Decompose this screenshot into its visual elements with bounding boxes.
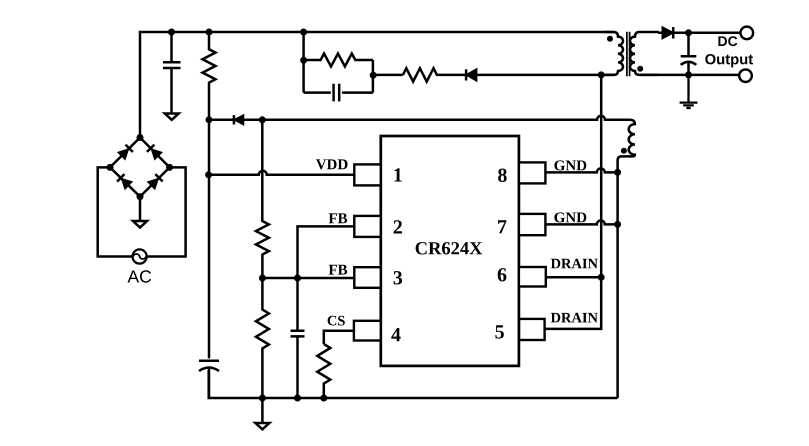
- pin 7 box: [519, 214, 546, 235]
- capacitor C4 VDD bulk (polarized): [199, 361, 219, 398]
- pin 2 number: [394, 220, 402, 233]
- node: snubber output junction: [370, 72, 377, 79]
- label GND (pin8): [554, 160, 586, 170]
- wire: VDD line to pin 1 (hop over divider): [209, 171, 355, 175]
- node: bridge bottom vertex: [137, 193, 144, 200]
- node: rail/snubber junction: [300, 29, 307, 36]
- node: divider bottom on rail: [259, 395, 266, 402]
- node: snubber top-left junction: [300, 57, 307, 64]
- pin 3 box: [354, 267, 381, 288]
- T1 core: [627, 32, 630, 76]
- resistor R2 snubber (horizontal): [304, 54, 373, 67]
- capacitor C3: [291, 331, 305, 398]
- node: bridge top vertex: [137, 134, 144, 141]
- pin 7 number: [498, 220, 506, 233]
- label AC: [128, 270, 152, 282]
- wire: DRAIN pin6 line: [545, 276, 601, 279]
- ground at bridge bottom: [139, 197, 142, 221]
- capacitor C1 input filter: [163, 32, 181, 114]
- pin 4 number: [391, 328, 400, 341]
- node: bridge right vertex: [166, 164, 173, 171]
- pin 4 box: [354, 321, 381, 341]
- ground at output (earth): [680, 75, 698, 108]
- transformer T1 aux winding: [618, 120, 635, 398]
- label DRAIN (pin5): [551, 313, 598, 323]
- label FB (pin2): [329, 213, 348, 223]
- node: R1/diode junction: [206, 116, 213, 123]
- diode D4 output rectifier (pointing right): [663, 27, 673, 38]
- wire: GND pin8 line (hop over drain wire): [545, 168, 617, 172]
- node: drain junction: [598, 274, 605, 281]
- resistor R5 lower divider: [256, 278, 269, 398]
- capacitor C5 output (polarized): [681, 33, 697, 65]
- wire: snubber to clamp resistor: [373, 74, 403, 77]
- pin 2 box: [354, 216, 381, 237]
- capacitor C2 snubber: [304, 84, 373, 102]
- wire: snubber right vertical: [372, 60, 375, 93]
- node: C3 bottom on rail: [294, 395, 301, 402]
- node: output cap bottom junction: [685, 71, 692, 78]
- wire: secondary top to output + terminal: [658, 32, 741, 35]
- pin 6 number: [498, 268, 507, 281]
- node: GND7/aux junction: [614, 221, 621, 228]
- node: divider top junction: [259, 116, 266, 123]
- wire: CS pin4 line: [324, 331, 355, 344]
- diode BR1 upper-left: [118, 149, 128, 159]
- terminal: DC output -: [739, 69, 752, 82]
- pin 5 number: [495, 325, 504, 338]
- IC U1 CR624X: [381, 136, 519, 366]
- pin 5 box: [519, 319, 545, 340]
- pin 3 number: [394, 271, 403, 284]
- wire: HV+ top rail from bridge top to transformer primary: [140, 32, 614, 138]
- wire: FB pin3 line: [262, 277, 354, 280]
- node: FB3/C3 junction: [294, 275, 301, 282]
- node: primary-bottom / drain junction: [598, 71, 605, 78]
- node: output cap top junction: [685, 29, 692, 36]
- wire: clamp to primary bottom: [476, 74, 614, 77]
- resistor R6 current sense: [317, 344, 330, 398]
- label FB (pin3): [329, 265, 348, 275]
- ground at C1: [165, 114, 179, 120]
- label GND (pin7): [554, 212, 586, 222]
- wire: bottom ground rail: [209, 370, 618, 398]
- label DRAIN (pin6): [551, 259, 598, 269]
- AC source V1: [133, 249, 147, 263]
- resistor R1 startup (vertical at x=209): [203, 32, 216, 175]
- node: VDD junction: [205, 171, 212, 178]
- node: bridge left vertex: [107, 164, 114, 171]
- diode D3 aux rectifier (cathode left): [234, 115, 243, 124]
- node: R6 bottom on rail: [320, 395, 327, 402]
- resistor R3 clamp (horizontal): [403, 68, 466, 81]
- wire: bridge right vertex to AC loop: [147, 167, 186, 256]
- wire: DRAIN pin5 line: [545, 277, 602, 329]
- wire: rail to snubber: [302, 32, 305, 93]
- transformer T1 primary winding: [604, 32, 623, 75]
- divider chain at x=262: resistor R4 upper: [256, 120, 269, 278]
- pin 8 box: [519, 162, 546, 183]
- diode BR1 lower-right: [148, 179, 158, 189]
- pin 1 number: [394, 168, 401, 181]
- diode D1 clamp (cathode left): [467, 69, 477, 80]
- wire: VDD node down to C4: [208, 175, 211, 359]
- wire: FB pin2 line and vertical to C3: [298, 226, 355, 330]
- label VDD: [316, 159, 348, 169]
- terminal: DC output +: [741, 27, 754, 40]
- node: FB divider mid junction: [259, 275, 266, 282]
- wire: GND pin7 line (hop over drain wire): [545, 220, 617, 224]
- wire: aux diode line (VDD node to aux winding, with hop over drain wire): [209, 116, 630, 120]
- T1 aux phase dot: [621, 148, 627, 154]
- transformer T1 secondary winding: [630, 32, 659, 75]
- pin 8 number: [498, 169, 507, 183]
- wire: secondary bottom to output - terminal: [641, 74, 739, 77]
- node: rail/C1 junction: [168, 29, 175, 36]
- bridge rectifier BR1: [107, 134, 174, 200]
- node: rail/R1 junction: [206, 29, 213, 36]
- pin 6 box: [519, 267, 546, 287]
- ground below rail: [261, 398, 264, 423]
- label DC Output: [718, 36, 737, 46]
- node: GND8/aux junction: [614, 169, 621, 176]
- diode BR1 upper-right: [152, 149, 162, 159]
- wire: bridge left vertex to AC loop: [98, 167, 133, 256]
- T1 secondary phase dot: [637, 66, 643, 72]
- diode BR1 lower-left: [122, 179, 132, 189]
- pin 1 box: [354, 164, 381, 185]
- wire: drain vertical (primary bottom to DRAIN pins): [600, 75, 603, 277]
- label CS: [328, 316, 345, 326]
- T1 primary phase dot: [607, 36, 613, 42]
